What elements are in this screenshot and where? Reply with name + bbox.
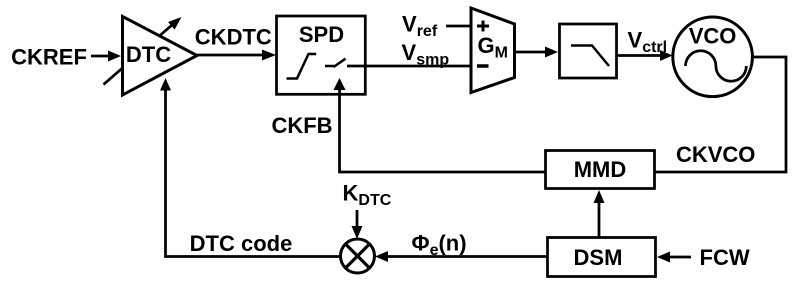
SPD switch icon	[325, 59, 346, 67]
wire Vsmp from SPD to GM	[347, 65, 471, 68]
wire VCO to MMD	[655, 57, 787, 172]
op-amp GM	[471, 8, 515, 93]
DSM box	[548, 238, 656, 277]
svg-text:Vref: Vref	[402, 12, 438, 41]
svg-text:FCW: FCW	[700, 245, 750, 270]
wire DTC code	[166, 90, 341, 257]
svg-text:DTC: DTC	[126, 42, 171, 67]
svg-text:DTC code: DTC code	[190, 231, 293, 256]
svg-text:DSM: DSM	[574, 245, 623, 270]
svg-text:CKVCO: CKVCO	[676, 142, 755, 167]
VCO circle	[673, 17, 753, 97]
wire DSM to MMD	[598, 202, 601, 238]
svg-text:CKDTC: CKDTC	[195, 25, 272, 50]
svg-text:Vsmp: Vsmp	[402, 40, 450, 69]
wire Vctrl filter to VCO	[617, 54, 662, 57]
svg-text:CKREF: CKREF	[11, 45, 87, 70]
wire CKDTC	[197, 54, 264, 57]
svg-text:KDTC: KDTC	[343, 181, 392, 210]
DTC label	[124, 45, 173, 63]
svg-text:VCO: VCO	[689, 24, 737, 49]
VCO sine wave	[686, 51, 747, 81]
multiplier X	[346, 244, 370, 268]
wire phi_e DSM to multiplier	[387, 255, 548, 258]
wire CKREF input	[91, 55, 110, 58]
SPD box	[277, 16, 366, 94]
GM minus sign	[477, 64, 489, 68]
DTC triangle	[123, 17, 198, 96]
svg-text:SPD: SPD	[299, 22, 344, 47]
wire GM to filter	[515, 51, 548, 54]
svg-text:Φe(n): Φe(n)	[412, 231, 467, 260]
svg-text:Vctrl: Vctrl	[628, 28, 668, 57]
GM plus sign	[477, 21, 489, 32]
wire KDTC into multiplier	[356, 210, 359, 227]
loop filter box	[560, 24, 617, 78]
svg-text:CKFB: CKFB	[271, 113, 332, 138]
wire Vref to GM	[446, 25, 471, 28]
filter curve	[571, 46, 609, 67]
wire CKFB into SPD	[340, 90, 546, 172]
wire FCW into DSM	[669, 256, 691, 259]
SPD ramp icon	[287, 54, 317, 79]
multiplier circle	[341, 239, 375, 273]
DTC variable arrow	[104, 25, 173, 85]
svg-text:MMD: MMD	[574, 157, 627, 182]
MMD box	[546, 151, 655, 189]
